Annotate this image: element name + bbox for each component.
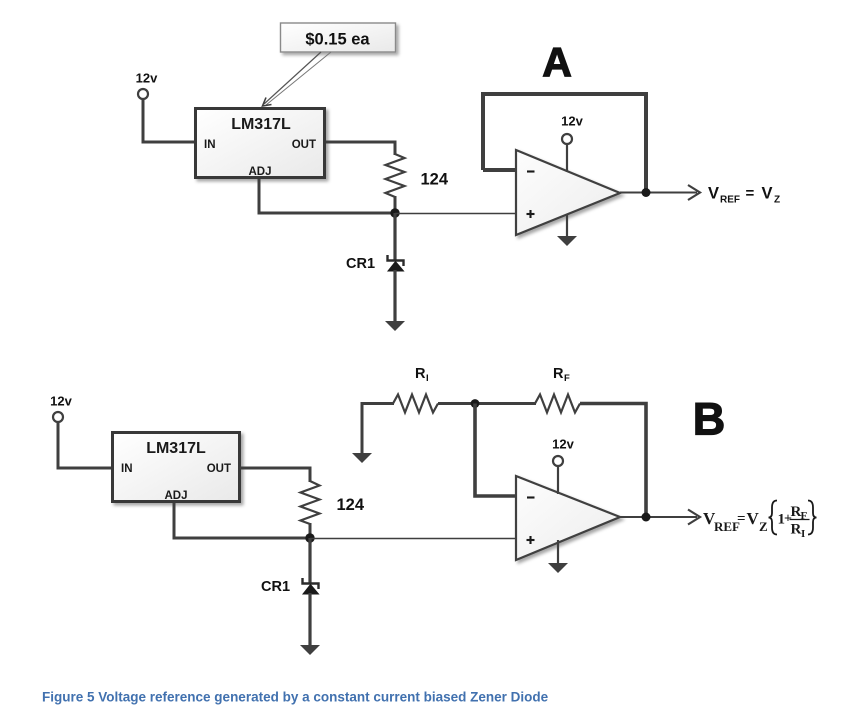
callout box "$0.15 ea": [281, 23, 396, 52]
junction node (RI/RF): [471, 399, 480, 408]
wire feedback to op-amp - (A): [483, 168, 516, 172]
supply wire (A op-amp): [566, 144, 568, 172]
regulator U1 LM317L (A): [196, 109, 325, 179]
label RF: [553, 366, 570, 384]
svg-text:LM317L: LM317L: [231, 116, 291, 133]
wire node to op-amp + (A): [395, 213, 516, 215]
ground arrow (A op-amp): [557, 236, 577, 246]
svg-text:I: I: [426, 373, 429, 384]
wire RI to junction: [438, 402, 536, 405]
callout leader arrow: [263, 52, 332, 106]
supply terminal (B op-amp): [553, 456, 563, 466]
svg-text:OUT: OUT: [292, 139, 316, 151]
ground arrow (RI left): [352, 453, 372, 463]
wire resistor to node (A): [394, 196, 397, 213]
svg-text:F: F: [564, 373, 570, 384]
svg-text:V: V: [762, 185, 773, 203]
svg-text:$0.15 ea: $0.15 ea: [305, 31, 370, 49]
svg-text:B: B: [693, 394, 726, 445]
wire 12v to IN (B): [58, 422, 111, 468]
regulator U3 LM317L (B): [113, 433, 240, 503]
node B (summing node): [305, 533, 314, 542]
svg-text:Z: Z: [774, 195, 780, 206]
op-amp U4 (B): [516, 476, 620, 560]
supply wire (B op-amp): [557, 466, 559, 494]
svg-text:=: =: [737, 511, 746, 527]
svg-text:124: 124: [421, 171, 449, 189]
resistor 124 (B): [301, 481, 320, 524]
svg-text:IN: IN: [204, 139, 216, 151]
wire zener to ground (A): [393, 270, 396, 325]
svg-text:Figure 5 Voltage reference gen: Figure 5 Voltage reference generated by …: [42, 690, 549, 705]
svg-text:ADJ: ADJ: [164, 490, 187, 502]
svg-text:=: =: [746, 185, 755, 202]
wire OUT to resistor (B): [240, 468, 310, 482]
output wire (A): [620, 192, 697, 194]
svg-text:V: V: [747, 509, 760, 528]
svg-text:CR1: CR1: [261, 579, 290, 595]
wire OUT to resistor (A): [326, 142, 395, 155]
ground arrow (B op-amp): [548, 563, 568, 573]
output node (A): [642, 188, 651, 197]
resistor RI: [393, 395, 438, 413]
svg-text:Z: Z: [759, 519, 768, 534]
terminal 12v (B): [53, 412, 63, 422]
ground arrow (A zener): [385, 321, 405, 331]
wire node to op-amp + (B): [310, 538, 516, 540]
svg-text:REF: REF: [720, 195, 740, 206]
svg-text:R: R: [791, 522, 802, 538]
wire zener to ground (B): [308, 593, 311, 649]
svg-text:12v: 12v: [561, 114, 583, 129]
resistor RF: [535, 395, 580, 413]
ground arrow (B zener): [300, 645, 320, 655]
output arrowhead (A): [688, 185, 700, 200]
op-amp U2 (A): [516, 150, 620, 235]
wire node to zener (A): [393, 213, 396, 261]
ground wire (A op-amp): [566, 214, 568, 240]
output wire (B): [620, 516, 697, 518]
svg-text:LM317L: LM317L: [146, 440, 206, 457]
wire ADJ to node (A): [259, 179, 395, 213]
svg-text:CR1: CR1: [346, 256, 375, 272]
wire RF to output vertical: [580, 404, 646, 516]
svg-text:F: F: [801, 510, 808, 522]
ground wire (RI left): [361, 402, 364, 457]
svg-text:A: A: [542, 39, 572, 85]
wire resistor to node (B): [309, 523, 312, 538]
svg-text:12v: 12v: [552, 437, 574, 452]
wire gnd to RI: [362, 402, 394, 405]
zener diode CR1 (B): [303, 578, 319, 594]
wire junction to op-amp - (B): [475, 404, 516, 497]
svg-text:V: V: [708, 185, 719, 203]
supply terminal (A op-amp): [562, 134, 572, 144]
terminal 12v (A): [138, 89, 148, 99]
svg-text:I: I: [801, 528, 805, 540]
wire node to zener (B): [308, 538, 311, 584]
node A (summing node): [390, 208, 399, 217]
label VREF = VZ: [708, 185, 780, 206]
label RI: [415, 366, 429, 384]
svg-text:R: R: [553, 366, 564, 382]
zener diode CR1 (A): [388, 255, 404, 271]
wire 12v to IN (A): [143, 100, 194, 143]
op-amp feedback wire (A): [483, 94, 646, 190]
svg-text:R: R: [415, 366, 426, 382]
formula VREF=VZ{1+RF/RI}: [703, 501, 817, 541]
svg-text:IN: IN: [121, 463, 133, 475]
svg-text:ADJ: ADJ: [248, 166, 271, 178]
resistor 124 (A): [386, 154, 405, 197]
ground wire (B op-amp): [557, 540, 559, 567]
wire ADJ to node (B): [174, 503, 310, 538]
output node (B): [642, 513, 651, 522]
svg-text:124: 124: [337, 496, 365, 514]
svg-text:12v: 12v: [136, 71, 158, 86]
svg-text:OUT: OUT: [207, 463, 231, 475]
svg-text:12v: 12v: [50, 394, 72, 409]
output arrowhead (B): [688, 510, 700, 525]
